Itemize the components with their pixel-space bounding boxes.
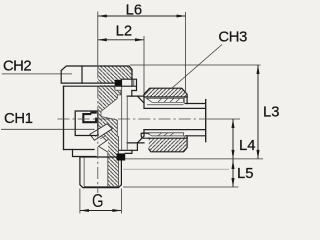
svg-text:L3: L3 <box>263 105 279 121</box>
svg-text:L6: L6 <box>126 3 142 19</box>
svg-text:CH1: CH1 <box>4 111 33 127</box>
svg-text:L4: L4 <box>239 138 255 154</box>
svg-text:CH2: CH2 <box>3 59 31 75</box>
svg-text:L2: L2 <box>116 24 132 40</box>
svg-text:G: G <box>92 190 104 211</box>
svg-text:CH3: CH3 <box>218 29 247 45</box>
svg-text:L5: L5 <box>237 166 253 182</box>
